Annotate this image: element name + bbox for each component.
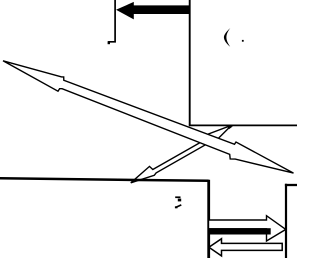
arrow A2 double-headed outline arrow lower-left to upper-right: [131, 125, 232, 183]
bottom-right box left edge: [285, 184, 287, 258]
bottom outline arrow pointing left: [209, 239, 282, 256]
glyph small character lower blob: [178, 199, 181, 202]
bottom-right box top edge: [285, 184, 297, 186]
wire horizontal line right (box corner): [189, 124, 297, 126]
wire vertical line top right: [189, 0, 191, 125]
thick solid left arrow top: [116, 2, 191, 20]
glyph small character top bar: [175, 196, 180, 198]
arrow A1 long double-headed outline arrow: [3, 61, 294, 173]
thick black bar: [208, 228, 271, 234]
bottom-left box top edge: [0, 178, 209, 181]
text open paren: [224, 28, 230, 47]
wire vertical line top left with hook: [108, 0, 115, 42]
tail wedge of arrow A2: [227, 126, 233, 129]
bottom-left box right edge: [207, 180, 210, 258]
dot: [242, 40, 244, 42]
bottom right outline arrow pointing right: [209, 216, 286, 241]
glyph small tick: [176, 205, 182, 208]
